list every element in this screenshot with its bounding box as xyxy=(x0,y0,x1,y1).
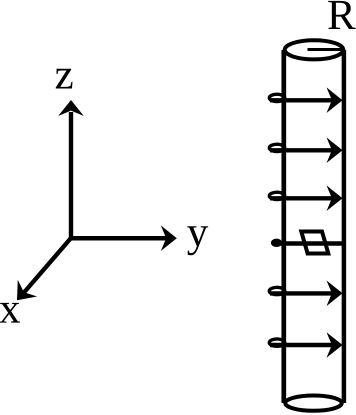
field arrow 1 hook xyxy=(269,94,284,101)
field arrow 6 hook xyxy=(269,339,284,346)
cylinder top ellipse xyxy=(285,40,344,59)
field arrow 3 shaft xyxy=(270,196,335,200)
cylinder left wall xyxy=(281,50,286,403)
y-axis arrowhead xyxy=(161,225,177,251)
z-axis arrowhead xyxy=(58,100,84,116)
field arrow 2 hook xyxy=(269,144,284,151)
label x xyxy=(0,303,20,323)
field arrow 5 hook xyxy=(269,287,284,294)
field arrow 1 shaft xyxy=(270,98,335,102)
x-axis shaft xyxy=(24,238,71,293)
field arrow 6 shaft xyxy=(270,343,335,347)
cylinder bottom ellipse xyxy=(285,395,341,410)
radius line R xyxy=(308,48,345,51)
field arrow 3 head xyxy=(327,185,343,211)
field arrow 3 hook xyxy=(269,192,284,199)
label z xyxy=(56,69,73,89)
field arrow 5 head xyxy=(327,281,343,307)
field arrow 1 head xyxy=(327,87,343,113)
field arrow 4 dot xyxy=(272,240,281,246)
field arrow 2 shaft xyxy=(270,148,335,152)
field arrow 4 shaft xyxy=(277,241,344,245)
cylinder right wall xyxy=(342,50,347,403)
field arrow 2 head xyxy=(327,137,343,163)
label y xyxy=(187,226,208,255)
x-axis arrowhead xyxy=(7,280,37,309)
field arrow 6 head xyxy=(327,332,343,358)
area element dA parallelogram xyxy=(301,232,328,254)
field arrow 5 shaft xyxy=(270,291,335,295)
z-axis shaft xyxy=(69,112,73,238)
label R xyxy=(328,1,355,29)
y-axis shaft xyxy=(71,236,168,241)
